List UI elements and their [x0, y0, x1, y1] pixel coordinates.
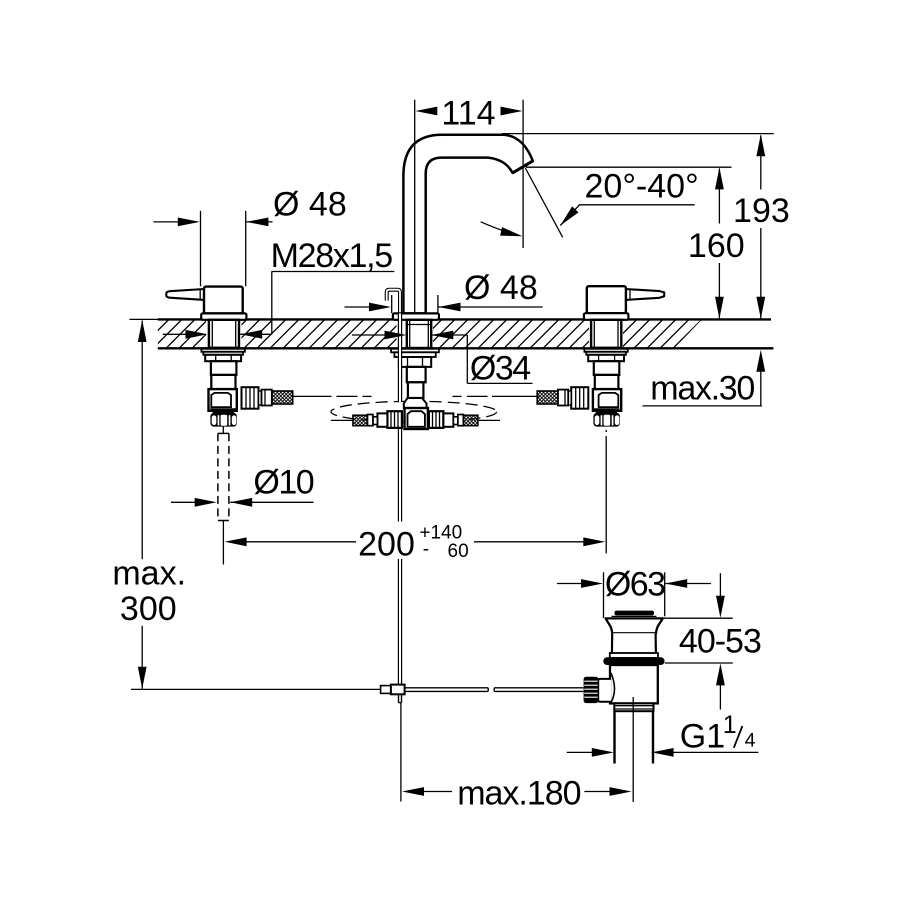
svg-text:193: 193	[733, 192, 790, 230]
svg-text:160: 160	[688, 227, 745, 265]
dim G1 1/4	[567, 751, 593, 753]
svg-text:max.180: max.180	[457, 775, 580, 813]
hatch gaps at shanks and pull rod	[206, 318, 242, 350]
left port	[387, 411, 402, 428]
countertop surface lines	[129, 318, 158, 320]
svg-text:max.: max.	[112, 554, 186, 592]
svg-text:60: 60	[448, 541, 469, 562]
dim048 left	[200, 211, 202, 286]
swivel arc	[481, 222, 518, 236]
svg-text:-: -	[423, 539, 429, 560]
dim 193	[760, 136, 762, 190]
dashed rod below	[218, 433, 229, 520]
rod below tee	[398, 429, 401, 685]
svg-text:G1: G1	[680, 718, 725, 756]
dim 010	[171, 501, 197, 503]
countertop hatching	[140, 318, 715, 350]
193/160 extension lines	[502, 133, 774, 135]
dim max.180	[402, 787, 424, 796]
max300	[141, 321, 143, 560]
dim 114 extension lines	[414, 100, 416, 313]
svg-text:max.30: max.30	[650, 369, 754, 407]
svg-text:M28x1,5: M28x1,5	[271, 237, 393, 275]
svg-text:4: 4	[745, 729, 756, 751]
dim 200	[225, 537, 247, 546]
hose phantom lines	[293, 395, 539, 397]
svg-text:Ø 48: Ø 48	[464, 269, 538, 307]
stream line	[525, 168, 562, 237]
svg-text:Ø 48: Ø 48	[273, 186, 347, 224]
bottom rod linkage	[131, 688, 381, 690]
svg-text:Ø10: Ø10	[253, 463, 313, 501]
pull rod hook	[387, 290, 400, 314]
pull rod over stack	[398, 313, 401, 402]
svg-text:40-53: 40-53	[679, 623, 761, 661]
dim 114	[415, 107, 437, 116]
svg-text:20°-40°: 20°-40°	[585, 167, 699, 205]
svg-text:Ø34: Ø34	[470, 349, 530, 387]
dim 034	[352, 334, 386, 336]
svg-text:Ø63: Ø63	[605, 565, 665, 603]
dim 063	[603, 572, 605, 618]
dim 40-53	[658, 617, 733, 619]
spout body	[403, 135, 532, 314]
svg-text:200: 200	[358, 526, 415, 564]
svg-text:114: 114	[441, 95, 495, 133]
tee	[331, 398, 500, 429]
svg-text:1: 1	[723, 711, 737, 739]
dim 160	[718, 169, 720, 224]
svg-text:300: 300	[120, 590, 177, 628]
right port	[429, 411, 444, 428]
dim048 center	[391, 295, 393, 313]
